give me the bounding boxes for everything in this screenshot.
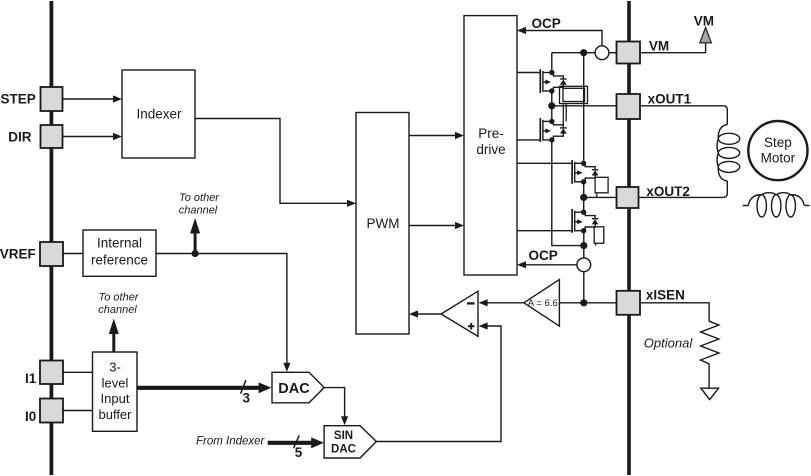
svg-text:channel: channel: [98, 304, 137, 316]
wire xOUT2 node to pin: [584, 196, 617, 198]
label to other channel (buffer): [98, 292, 140, 317]
node sense common: [580, 242, 587, 249]
svg-text:3: 3: [243, 391, 251, 406]
node xOUT2: [580, 194, 587, 201]
wire STEP to Indexer: [63, 95, 123, 102]
pin I0: [25, 399, 63, 424]
bus width slash 3: [241, 380, 251, 405]
svg-text:5: 5: [295, 445, 303, 460]
PWM block: [356, 113, 409, 335]
svg-text:I1: I1: [25, 371, 37, 386]
label Optional: [644, 336, 694, 351]
wire OCP bottom to Pre-drive: [517, 261, 577, 268]
gate wire Q3: [517, 162, 572, 164]
wire OCP top to Pre-drive: [517, 27, 602, 46]
svg-text:OCP: OCP: [529, 248, 558, 263]
svg-text:Internal: Internal: [97, 236, 142, 251]
svg-text:level: level: [102, 375, 129, 390]
transistor Q2 (low-side A): [540, 118, 566, 143]
transistor Q1 (high-side A): [540, 69, 566, 94]
svg-text:VM: VM: [694, 13, 714, 28]
wire DAC to SIN DAC: [324, 388, 348, 426]
amplifier A=6.6: [524, 280, 560, 327]
pin VREF: [0, 242, 63, 266]
wire Internal reference to DAC: [156, 254, 291, 372]
wire motor winding to xOUT2 pin: [639, 181, 728, 197]
sense cell rectangle Q3: [595, 177, 608, 197]
node xOUT1: [548, 102, 555, 109]
label From Indexer: [196, 436, 266, 448]
svg-text:xOUT2: xOUT2: [646, 184, 690, 199]
bus width slash 5: [294, 436, 303, 460]
gate wire Q1: [517, 72, 540, 74]
node VM rail: [580, 49, 587, 56]
wire PWM to Pre-drive (upper): [409, 132, 464, 139]
svg-text:A = 6.6: A = 6.6: [528, 298, 558, 309]
VM supply arrow: [694, 13, 714, 43]
wire sensor to xISEN node: [583, 272, 585, 303]
output bus rail (right): [627, 1, 631, 475]
wire xISEN pin to resistor: [640, 303, 709, 321]
svg-text:xOUT1: xOUT1: [648, 91, 692, 106]
svg-text:PWM: PWM: [367, 216, 400, 231]
wire amplifier to comparator minus: [479, 299, 524, 306]
Pre-drive block: [464, 16, 517, 275]
wire I1 to buffer: [63, 371, 93, 373]
motor winding L1: [717, 125, 740, 182]
svg-text:Optional: Optional: [644, 336, 694, 351]
svg-text:STEP: STEP: [1, 91, 36, 106]
wire xOUT1 node to pin: [552, 105, 617, 107]
wire VREF to Internal reference: [63, 253, 83, 255]
svg-text:VM: VM: [649, 39, 669, 54]
comparator U1: [441, 291, 478, 336]
to other channel arrow (reference): [190, 218, 200, 254]
OCP label (bottom): [529, 248, 558, 263]
resistor R sense: [701, 321, 719, 388]
sense cell rectangle Q4: [594, 227, 604, 246]
wire Indexer to PWM: [195, 119, 356, 207]
bus From Indexer to SIN DAC (5 bits): [268, 437, 324, 448]
svg-text:channel: channel: [179, 204, 218, 216]
svg-text:3-: 3-: [109, 360, 121, 375]
pin xOUT1: [617, 91, 692, 119]
svg-text:reference: reference: [91, 253, 148, 268]
svg-text:Motor: Motor: [761, 151, 796, 166]
input bus rail (left): [50, 1, 54, 475]
wire Q1 source to xOUT1 node and Q2 drain: [551, 91, 553, 121]
wire VM node to high-side FET B: [583, 53, 585, 164]
svg-text:xISEN: xISEN: [646, 287, 685, 302]
transistor Q3 (high-side B): [572, 160, 598, 185]
pin VM: [617, 39, 670, 64]
svg-text:SIN: SIN: [334, 430, 353, 442]
svg-text:DAC: DAC: [278, 381, 310, 397]
to other channel arrow (buffer): [109, 319, 119, 353]
wire sense node to sensor circle: [583, 246, 585, 258]
wire Q2 source to sense node: [552, 140, 584, 246]
DAC block: [272, 372, 324, 403]
OCP label (top): [532, 16, 561, 31]
node on reference wire: [192, 250, 199, 257]
svg-text:I0: I0: [25, 409, 36, 424]
wire Q3 source to xOUT2 node and Q4 drain: [583, 182, 585, 213]
step motor M1: [748, 121, 807, 180]
wire xOUT1 pin to motor winding: [640, 106, 727, 125]
Indexer block: [122, 70, 195, 158]
gate wire Q2: [517, 139, 540, 141]
svg-text:To other: To other: [99, 292, 140, 304]
VM rail wires: [552, 53, 617, 73]
current sensor circle (bottom): [577, 258, 591, 272]
motor winding L2: [743, 193, 810, 217]
sense cell rectangle pair (bridge A): [560, 86, 588, 125]
wire Q4 source to sense node: [583, 231, 585, 246]
svg-text:drive: drive: [476, 142, 505, 157]
wire I0 to buffer: [63, 410, 93, 412]
svg-text:To other: To other: [179, 192, 220, 204]
svg-text:From Indexer: From Indexer: [196, 436, 266, 448]
svg-text:VREF: VREF: [0, 246, 36, 261]
current sensor circle (top): [595, 46, 609, 60]
svg-text:DAC: DAC: [331, 443, 356, 455]
pin xISEN: [617, 287, 685, 315]
transistor Q4 (low-side B): [572, 209, 598, 234]
svg-text:Step: Step: [764, 135, 792, 150]
pin STEP: [1, 87, 63, 111]
svg-text:DIR: DIR: [8, 129, 32, 144]
SIN DAC block: [324, 426, 376, 458]
3-level input buffer block: [93, 352, 138, 431]
wire PWM to Pre-drive (lower): [409, 222, 464, 229]
wire node to amplifier: [559, 302, 583, 304]
Internal reference block: [83, 230, 156, 276]
svg-text:Indexer: Indexer: [136, 107, 182, 122]
svg-text:Input: Input: [101, 391, 130, 406]
wire VM pin to supply arrow: [640, 44, 706, 53]
ground: [701, 388, 719, 399]
wire node to xISEN pin: [584, 302, 617, 304]
pin xOUT2: [617, 184, 690, 208]
svg-text:Pre-: Pre-: [478, 126, 504, 141]
svg-text:buffer: buffer: [98, 407, 132, 422]
gate wire Q4: [517, 230, 572, 232]
svg-text:OCP: OCP: [532, 16, 561, 31]
label to other channel (reference): [179, 192, 221, 217]
wire comparator output to PWM: [409, 310, 441, 317]
wire SIN DAC to comparator plus input: [376, 322, 501, 441]
node xISEN: [580, 299, 587, 306]
wire DIR to Indexer: [63, 133, 123, 140]
pin I1: [25, 361, 63, 387]
bus buffer to DAC (3 bits): [137, 382, 271, 393]
pin DIR: [8, 125, 62, 148]
